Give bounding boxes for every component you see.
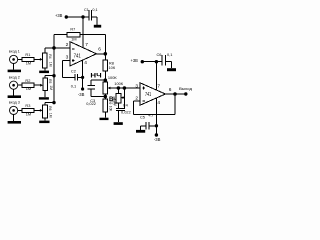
node output terminal dot xyxy=(184,92,187,95)
resistor R1 label xyxy=(25,52,30,57)
wire R6 top to bus xyxy=(45,103,54,106)
svg-text:+3B: +3B xyxy=(55,13,62,18)
ground R4 xyxy=(39,68,49,73)
svg-text:C2: C2 xyxy=(71,68,76,73)
svg-text:0,1: 0,1 xyxy=(71,83,76,88)
potentiometer R5 label rotated xyxy=(48,79,53,90)
potentiometer bass 100K xyxy=(103,82,108,94)
svg-text:0,1: 0,1 xyxy=(92,8,97,12)
wire R3 to pot R6 wiper xyxy=(34,109,43,112)
wire R1 to pot R4 wiper xyxy=(34,58,43,61)
ground C6 xyxy=(167,68,176,71)
svg-text:741: 741 xyxy=(145,92,151,98)
svg-text:7: 7 xyxy=(157,83,160,89)
svg-text:0,022: 0,022 xyxy=(86,101,96,106)
node junction +3B / pin7 U1 xyxy=(81,15,84,18)
wire pin 6 U2 output xyxy=(165,93,175,95)
capacitor C6 xyxy=(162,55,166,65)
node -3B terminal U1 xyxy=(81,87,84,90)
capacitor C3 label xyxy=(90,98,95,103)
svg-text:вход 3: вход 3 xyxy=(9,100,21,105)
node +3B rail 1 label xyxy=(55,13,62,18)
node output U1 junction xyxy=(104,52,108,56)
wire output to terminal xyxy=(175,93,186,95)
ground C1 xyxy=(94,25,101,28)
svg-text:вход 1: вход 1 xyxy=(9,49,21,54)
node bass pot bottom junction xyxy=(104,95,108,99)
node bus tap R6 xyxy=(52,101,55,104)
ground connector X1 xyxy=(8,64,21,73)
wire C5 to ground xyxy=(140,126,146,130)
svg-text:C5: C5 xyxy=(140,115,145,120)
wire pin 7 U1 xyxy=(82,17,84,48)
node -3B label U1 xyxy=(78,92,85,97)
bass pot value 100K xyxy=(108,75,117,80)
wire R8 to bass pot xyxy=(104,71,106,82)
resistor R3 value 1M xyxy=(26,111,31,116)
wire R7 right to output xyxy=(80,35,105,54)
resistor R2 xyxy=(22,83,34,87)
pin 6 U2 xyxy=(169,87,172,93)
wire bass wiper to pin 3 U2 xyxy=(110,87,140,89)
svg-text:1М: 1М xyxy=(26,111,31,116)
ground treble network xyxy=(114,122,123,125)
ground C5 xyxy=(136,130,145,133)
pin 2 U2 xyxy=(135,96,138,102)
svg-text:10К: 10К xyxy=(109,65,116,70)
svg-text:C6: C6 xyxy=(157,52,162,57)
svg-text:6: 6 xyxy=(98,47,101,53)
potentiometer R6 label rotated xyxy=(48,106,53,118)
capacitor C3 value 0,022 xyxy=(86,101,96,106)
ground R5 xyxy=(39,91,49,100)
capacitor C4 xyxy=(116,109,125,111)
wire bass pot bottom xyxy=(104,94,106,99)
wire C6 to ground xyxy=(166,62,172,68)
svg-text:2: 2 xyxy=(66,42,69,48)
wire treble pot top xyxy=(117,88,119,93)
input 2 label xyxy=(9,75,21,80)
svg-text:0,022: 0,022 xyxy=(121,109,131,114)
svg-text:Выход: Выход xyxy=(179,86,193,91)
node bus junction pin 2 U1 xyxy=(52,46,56,50)
resistor R7 label xyxy=(70,28,75,32)
wire C2 to pin 4 U1 xyxy=(77,76,82,78)
pin 4 U1 xyxy=(84,60,87,66)
connector X3 xyxy=(10,106,18,114)
pin 4 U2 xyxy=(157,100,160,106)
capacitor C1 value 0,1 xyxy=(92,8,97,12)
node -3B terminal U2 xyxy=(155,133,158,136)
wire C3 to bottom junction xyxy=(91,89,105,97)
node treble wiper junction xyxy=(123,86,127,90)
svg-text:1М: 1М xyxy=(26,60,31,65)
resistor R8 value 10K xyxy=(109,65,116,70)
wire R7 left to bus xyxy=(54,35,67,48)
ground connector X3 xyxy=(8,115,21,124)
wire bus to pin 2 U1 xyxy=(54,47,70,49)
svg-text:+3B: +3B xyxy=(131,58,138,63)
input 1 label xyxy=(9,49,21,54)
node junction C5 pin 4 xyxy=(155,124,158,127)
op-amp U2 xyxy=(140,83,166,106)
wire C4 to ground xyxy=(117,111,119,123)
node output junction U2 xyxy=(173,92,177,96)
capacitor C2 label xyxy=(71,68,76,73)
pin 6 U1 xyxy=(98,47,101,53)
resistor R1 xyxy=(22,57,34,61)
svg-text:C4: C4 xyxy=(123,103,129,108)
svg-text:6: 6 xyxy=(169,87,172,93)
resistor R1 value 1M xyxy=(26,60,31,65)
resistor R3 xyxy=(22,108,34,112)
wire +3B rail 1 xyxy=(66,16,89,18)
svg-text:741: 741 xyxy=(74,53,81,59)
capacitor C1 xyxy=(89,10,92,21)
svg-text:1М: 1М xyxy=(49,62,53,67)
potentiometer treble 100K xyxy=(116,93,121,103)
svg-text:-3B: -3B xyxy=(78,92,85,97)
svg-text:R6: R6 xyxy=(48,106,52,110)
svg-text:10К: 10К xyxy=(109,106,113,112)
node bus tap R5 xyxy=(52,74,55,77)
svg-text:100К: 100К xyxy=(114,81,123,86)
wire R2 to pot R5 wiper xyxy=(34,84,43,87)
wire pin 3 U1 to C2 xyxy=(62,61,75,78)
node bass pot top junction xyxy=(104,78,108,82)
resistor R9 label rotated xyxy=(108,100,113,111)
ground R9 xyxy=(100,112,109,120)
pin 7 U1 xyxy=(85,42,88,48)
wire R4 top to bus xyxy=(45,48,54,53)
wire C1 to ground xyxy=(91,17,97,25)
resistor R2 value 1M xyxy=(26,86,31,91)
resistor R2 label xyxy=(25,78,30,83)
pin 2 U1 xyxy=(66,42,69,48)
pin 3 U2 xyxy=(135,83,138,89)
svg-text:4: 4 xyxy=(157,100,160,106)
wire C5 to pin 4 line xyxy=(149,125,156,127)
svg-text:-3B: -3B xyxy=(154,137,161,142)
input 3 label xyxy=(9,100,21,105)
label ВЧ xyxy=(109,96,118,103)
svg-text:вход 2: вход 2 xyxy=(9,75,21,80)
label НЧ xyxy=(90,72,102,79)
treble pot wiper arrow xyxy=(121,96,125,99)
svg-text:1М: 1М xyxy=(113,101,117,106)
capacitor C5 value 4,7 xyxy=(148,112,153,117)
capacitor C4 value 0,022 xyxy=(121,109,131,114)
capacitor C2 xyxy=(75,74,77,80)
pin 3 U1 xyxy=(66,54,69,60)
svg-text:C1: C1 xyxy=(84,8,89,12)
node junction C2 pin 4 xyxy=(81,76,84,79)
wire X1 to R1 xyxy=(18,58,22,60)
node junction +3B / pin7 U2 xyxy=(155,60,158,63)
ground R6 xyxy=(39,118,49,123)
wire inverting bus xyxy=(53,48,55,103)
svg-text:НЧ: НЧ xyxy=(90,72,102,79)
op-amp U1 xyxy=(70,42,96,66)
svg-text:R3: R3 xyxy=(25,103,30,108)
svg-text:R1: R1 xyxy=(25,52,30,57)
resistor R8 label xyxy=(109,60,114,65)
svg-text:1М: 1М xyxy=(71,38,76,42)
node +3B terminal dot 2 xyxy=(141,60,144,63)
wire R5 top to bus xyxy=(45,76,54,79)
svg-text:1М: 1М xyxy=(49,113,53,118)
capacitor C6 value 0,1 xyxy=(167,52,172,57)
capacitor C5 xyxy=(146,122,149,130)
capacitor C3 wire from top junction xyxy=(91,80,105,85)
wire treble pot bottom to C4 xyxy=(117,103,119,108)
label Выход xyxy=(179,86,193,91)
wire pin 7 U2 xyxy=(155,62,157,90)
resistor R7 value 1M xyxy=(71,38,76,42)
pin 7 U2 xyxy=(157,83,160,89)
bass pot wiper arrow xyxy=(108,87,111,90)
potentiometer R4 label rotated xyxy=(48,54,53,66)
svg-text:R4: R4 xyxy=(48,54,52,58)
svg-text:100К: 100К xyxy=(108,75,117,80)
svg-text:4,7: 4,7 xyxy=(148,112,153,117)
svg-text:4: 4 xyxy=(84,60,87,66)
capacitor C2 value xyxy=(71,83,76,88)
svg-text:3: 3 xyxy=(66,54,69,60)
resistor R8 xyxy=(103,60,108,71)
resistor R9 xyxy=(103,99,108,112)
node treble pot top junction xyxy=(117,86,121,90)
node +3B rail 2 label xyxy=(131,58,138,63)
wire feedback U2 xyxy=(134,94,175,114)
svg-text:R7: R7 xyxy=(70,28,75,32)
capacitor C3 xyxy=(87,86,95,89)
wire pin 2 U2 stub xyxy=(134,100,140,102)
svg-text:7: 7 xyxy=(85,42,88,48)
node +3B terminal dot xyxy=(65,15,68,18)
treble pot value 100K xyxy=(114,81,123,86)
capacitor C4 label xyxy=(123,103,129,108)
connector X2 xyxy=(10,81,18,89)
ground connector X2 xyxy=(8,89,21,98)
wire pin 6 U1 output xyxy=(96,53,105,55)
svg-text:R5: R5 xyxy=(48,79,52,83)
svg-text:3: 3 xyxy=(135,83,138,89)
resistor R3 label xyxy=(25,103,30,108)
svg-text:0,1: 0,1 xyxy=(167,52,172,57)
wire pin 4 U2 xyxy=(155,98,157,135)
wire X2 to R2 xyxy=(18,84,22,86)
wire X3 to R3 xyxy=(18,109,22,111)
svg-text:R2: R2 xyxy=(25,78,30,83)
wire +3B rail 2 xyxy=(142,61,162,63)
potentiometer R6 xyxy=(43,105,48,118)
node -3B label U2 xyxy=(154,137,161,142)
resistor R7 xyxy=(67,32,80,37)
potentiometer R4 xyxy=(43,53,48,68)
capacitor C1 label xyxy=(84,8,89,12)
connector X1 xyxy=(10,55,18,63)
wire pin 4 U1 xyxy=(82,60,84,89)
potentiometer R5 xyxy=(43,78,48,90)
potentiometer treble label rotated xyxy=(112,99,118,106)
capacitor C6 label xyxy=(157,52,162,57)
svg-text:1М: 1М xyxy=(49,85,53,90)
svg-text:1М: 1М xyxy=(26,86,31,91)
wire output to R8 xyxy=(104,54,106,60)
capacitor C5 label xyxy=(140,115,145,120)
wire wiper to C4 xyxy=(123,88,125,109)
